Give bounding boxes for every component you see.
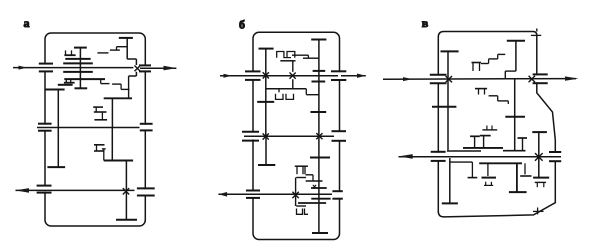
link bar from corner v xyxy=(447,150,481,152)
lower center stem v xyxy=(516,163,518,192)
output arrow head b xyxy=(218,192,227,197)
output shaft v xyxy=(399,156,562,158)
carrier left T v xyxy=(474,136,476,148)
gear shaft II down rim b xyxy=(258,164,275,166)
gear right top rim v xyxy=(532,131,547,133)
hub glyph shaft III up b xyxy=(297,166,303,174)
long bar lower a xyxy=(104,97,132,99)
gear col left mid rim b xyxy=(257,101,274,103)
cross node left shaft I v xyxy=(446,76,452,82)
cross node shaft III a xyxy=(123,188,129,194)
bearing right shaft I v xyxy=(533,73,548,75)
input arrow b xyxy=(224,74,233,78)
bearing right shaft II a xyxy=(140,123,153,125)
bracket upper v xyxy=(472,63,474,72)
gear rim left a xyxy=(45,89,64,91)
cross node shaft III b xyxy=(292,192,298,198)
gear rim meshing a xyxy=(104,160,133,162)
gear right stem v xyxy=(538,132,540,178)
carrier right leg v xyxy=(522,138,524,151)
gear col left stem b xyxy=(265,49,267,137)
bottom gear rim v xyxy=(442,202,458,204)
shaft II a xyxy=(37,127,140,129)
gear shaft II down stem a xyxy=(111,128,113,161)
stair lower2 v xyxy=(489,95,498,97)
carrier hub ticks v xyxy=(482,129,497,131)
lower left leg v xyxy=(487,163,489,176)
gearbox housing a xyxy=(45,33,145,226)
output arrow head III a xyxy=(16,188,30,193)
gear col right rims b xyxy=(311,39,326,41)
jaw clutch upper a xyxy=(135,59,137,65)
input shaft I b xyxy=(220,75,338,77)
output arrow head a xyxy=(164,66,177,71)
sleeve bar 2 a xyxy=(63,62,93,64)
gear col right stem b xyxy=(318,40,320,234)
bearing left shaft I b xyxy=(245,70,261,72)
bearing right shaft I a xyxy=(139,64,151,66)
link bar upper b xyxy=(303,57,319,59)
gear G1 top rim a xyxy=(74,47,87,49)
sleeve bar 4 a xyxy=(64,78,105,80)
bearing left shaft II v xyxy=(431,151,446,153)
carrier bar right v xyxy=(503,150,526,152)
gear block rim v xyxy=(507,40,525,42)
link stem lower a xyxy=(128,76,130,98)
input arrow a xyxy=(19,66,28,70)
bottom branch v xyxy=(450,161,473,163)
gear G1 bottom rim a xyxy=(75,87,88,89)
gear rim mid a xyxy=(58,84,73,86)
input arrow v xyxy=(403,77,413,81)
fork glyph upper a xyxy=(93,106,103,108)
input shaft I v xyxy=(383,78,576,81)
bearing left shaft III b xyxy=(246,190,260,192)
output arrow head v xyxy=(565,76,579,80)
hatch tick bottom v xyxy=(533,210,544,212)
gear shaft I stem v xyxy=(447,51,449,150)
hatch tick top v xyxy=(531,34,541,36)
gear train left stem a xyxy=(57,90,59,168)
housing gap patches a xyxy=(45,64,145,194)
bearing left shaft I v xyxy=(430,74,447,76)
tiny cross b xyxy=(313,185,316,188)
bearing left shaft II a xyxy=(38,123,52,125)
slide block top bars b xyxy=(277,52,284,58)
carrier right T v xyxy=(483,136,485,148)
gear shaft III stem a xyxy=(125,161,127,220)
gear T top-right rim a xyxy=(119,37,133,39)
carrier bar v xyxy=(463,147,503,149)
output shaft III a xyxy=(16,189,135,191)
lower center rim v xyxy=(509,191,527,193)
sleeve bar 1 a xyxy=(65,58,90,60)
stair dash lower a xyxy=(101,83,110,85)
svg-text:в: в xyxy=(422,16,429,30)
bearing right shaft I b xyxy=(331,70,346,72)
bearing left shaft I a xyxy=(39,63,53,65)
gear T top-right stem a xyxy=(126,38,128,59)
shaft II b xyxy=(244,135,334,137)
bearing right shaft III b xyxy=(332,190,342,192)
lower left hub ticks v xyxy=(485,182,487,185)
bar below shaft III b xyxy=(298,202,326,204)
stair lower v xyxy=(475,88,487,90)
bearing right shaft III a xyxy=(137,187,155,189)
stair tick lower a xyxy=(100,79,102,84)
gear rim left low a xyxy=(47,166,65,168)
slide block mirror bars b xyxy=(276,94,284,100)
gear right hub ticks v xyxy=(536,182,538,187)
cross node 2 shaft I b xyxy=(290,73,296,79)
cross node shaft II v xyxy=(535,153,543,161)
cross node shaft I a xyxy=(135,66,141,72)
gear shaft III rim a xyxy=(116,219,137,221)
cross node right shaft I v xyxy=(529,76,535,82)
stair upper v xyxy=(498,53,506,55)
gear col left top rim b xyxy=(259,48,274,50)
gear block stem v xyxy=(515,41,517,71)
col crossbar 2 b xyxy=(311,198,330,200)
lower right rim v xyxy=(520,175,531,177)
center stem rim v xyxy=(505,116,525,118)
gear shaft II down stem b xyxy=(265,137,267,166)
cross node 2 shaft II b xyxy=(316,133,322,139)
stair step lower a xyxy=(120,84,122,89)
hub glyph below shaft I a xyxy=(65,79,67,83)
bearing right shaft II v xyxy=(549,151,561,153)
lower left rim v xyxy=(482,177,497,179)
stem through shaft III b xyxy=(295,178,297,207)
gear block step v xyxy=(505,70,516,72)
gearbox housing b xyxy=(253,32,340,239)
bottom gear stem v xyxy=(449,158,451,203)
step upper a xyxy=(117,46,128,48)
housing gap patches b xyxy=(253,72,340,198)
gear stem to shaft II a xyxy=(111,98,113,127)
lower right stem v xyxy=(524,163,526,174)
hub glyph shaft III down b xyxy=(297,209,303,215)
stair glyph shaft III b xyxy=(306,174,314,176)
output shaft III b xyxy=(218,193,332,195)
output arrow head II v xyxy=(399,154,413,159)
bottom branch rim v xyxy=(468,177,478,179)
slide block hub dash b xyxy=(280,60,295,62)
gear G1 stem a xyxy=(79,48,81,89)
output arrow line a xyxy=(140,67,176,69)
sleeve bar 3 a xyxy=(63,71,93,73)
gear right bottom rim v xyxy=(533,177,549,179)
cross node 1 shaft II b xyxy=(263,133,269,139)
hub dash shaft III b xyxy=(296,177,306,179)
lower bar v xyxy=(479,162,522,164)
bearing left shaft II b xyxy=(242,131,259,133)
col crossbar 1 b xyxy=(311,187,327,189)
gear shaft I rim v xyxy=(441,50,459,52)
center stem lower v xyxy=(514,79,516,150)
bearing left shaft III a xyxy=(37,185,52,187)
svg-text:б: б xyxy=(239,17,245,31)
bearing right shaft II b xyxy=(332,130,347,132)
hub glyph above shaft I a xyxy=(65,50,67,55)
slide block stem b xyxy=(292,61,294,72)
left link rim v xyxy=(432,106,456,108)
link bar lower b xyxy=(305,89,307,95)
jaw clutch lower a xyxy=(135,72,137,76)
housing gap patches v xyxy=(438,75,555,160)
below shaft I link b xyxy=(266,88,307,90)
input shaft I a xyxy=(13,67,133,69)
cross node 1 shaft I b xyxy=(263,72,269,78)
fork glyph lower a xyxy=(94,144,105,146)
housing v outline xyxy=(438,32,555,217)
stem below cross2 b xyxy=(292,79,294,88)
output arrow b xyxy=(341,75,366,77)
stair dash upper a xyxy=(110,49,120,51)
svg-text:а: а xyxy=(24,16,30,30)
